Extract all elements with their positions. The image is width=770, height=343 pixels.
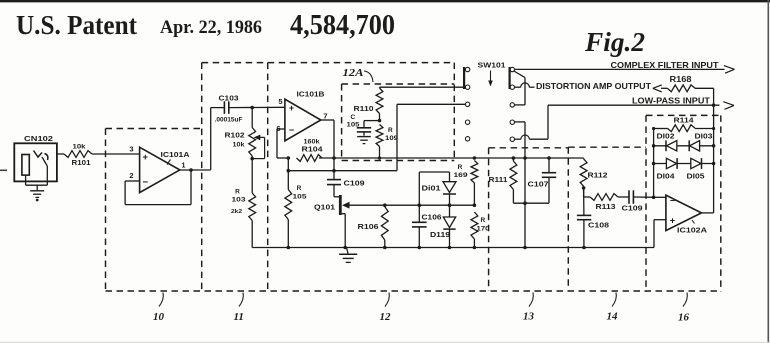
wire switch pole c1 to c3 vertical xyxy=(514,71,525,105)
wire diode network left vertical xyxy=(652,127,656,199)
wire complex filter input line with arrow xyxy=(515,60,735,73)
svg-text:R111: R111 xyxy=(489,175,508,184)
svg-text:Q101: Q101 xyxy=(314,203,335,212)
svg-text:C107: C107 xyxy=(528,180,549,189)
svg-text:IC101B: IC101B xyxy=(297,90,326,99)
dashed block 10 box xyxy=(106,129,202,292)
svg-text:DI03: DI03 xyxy=(695,134,713,141)
wire CN102 contacts to ground bar xyxy=(26,166,48,185)
wire IC101B minus input from R113/C109 node xyxy=(654,196,666,198)
wire switch c4 down to shunt network xyxy=(514,122,527,248)
svg-text:R113: R113 xyxy=(596,202,616,211)
wire IC102A output xyxy=(702,212,714,214)
svg-text:7: 7 xyxy=(323,112,327,121)
wire common bottom rail xyxy=(252,246,654,250)
svg-text:DI05: DI05 xyxy=(687,174,705,181)
wire switch line to vertical 397 xyxy=(397,103,465,105)
header: U.S. Patent xyxy=(16,10,137,40)
dashed block 11 box xyxy=(202,63,455,291)
capacitor C103 .00015uF xyxy=(211,94,243,124)
svg-text:5: 5 xyxy=(278,97,282,106)
block number label 14 with leader xyxy=(607,293,619,323)
wire node line L2 xyxy=(287,158,398,173)
capacitor C107 xyxy=(528,158,557,203)
capacitor C106 xyxy=(412,205,442,247)
svg-text:12A: 12A xyxy=(343,68,364,79)
svg-text:LOW-PASS INPUT: LOW-PASS INPUT xyxy=(632,96,711,106)
ground below CN102 xyxy=(30,185,44,201)
svg-text:R102: R102 xyxy=(225,131,245,140)
resistor R101 10k xyxy=(64,144,92,168)
switch SW101 label and arrow xyxy=(478,61,506,87)
svg-text:169: 169 xyxy=(454,172,468,179)
svg-text:COMPLEX FILTER INPUT: COMPLEX FILTER INPUT xyxy=(611,60,720,70)
svg-text:−: − xyxy=(289,125,294,135)
svg-text:C108: C108 xyxy=(588,221,609,230)
header: patent number 4,584,700 xyxy=(290,10,395,41)
wire rail corner up to IC102A plus input xyxy=(654,220,666,248)
svg-text:D119: D119 xyxy=(430,230,450,239)
diode Di01 xyxy=(419,172,456,205)
svg-text:U.S. Patent: U.S. Patent xyxy=(16,10,137,40)
wire low-pass input line with arrow xyxy=(515,96,735,140)
wire IC101A output up to C103 xyxy=(210,108,212,170)
page bottom edge xyxy=(0,341,770,343)
resistor R104 160k feedback xyxy=(277,140,323,162)
capacitor C109 (gate) xyxy=(327,171,365,197)
wire node line L1 to R112 xyxy=(287,156,584,160)
svg-text:DISTORTION AMP OUTPUT: DISTORTION AMP OUTPUT xyxy=(536,81,652,91)
capacitor C109 (block 14) xyxy=(622,190,654,212)
svg-text:C: C xyxy=(351,114,356,121)
resistor R106 xyxy=(358,207,389,248)
op-amp IC101B xyxy=(276,90,327,141)
svg-text:R104: R104 xyxy=(302,145,324,154)
svg-text:103: 103 xyxy=(232,197,246,204)
block number label 12 with leader xyxy=(380,293,392,324)
svg-text:R112: R112 xyxy=(588,171,608,180)
shared dashed bottom edge of blocks xyxy=(106,290,721,292)
svg-text:R114: R114 xyxy=(674,116,695,125)
svg-text:C109: C109 xyxy=(622,204,643,213)
page edge artifact left xyxy=(0,169,7,171)
page right border xyxy=(767,0,769,343)
svg-text:C103: C103 xyxy=(219,94,239,103)
svg-text:IC102A: IC102A xyxy=(677,226,708,235)
label 12A with leader xyxy=(343,68,374,82)
svg-text:2k2: 2k2 xyxy=(231,209,242,215)
dashed block 13 box xyxy=(489,148,569,291)
svg-text:2: 2 xyxy=(129,171,133,180)
block number label 11 with leader xyxy=(234,293,244,324)
wire vertical from switch line down to L2 xyxy=(396,104,398,170)
transistor Q101 xyxy=(314,195,385,248)
svg-text:11: 11 xyxy=(234,311,244,323)
svg-text:−: − xyxy=(670,196,675,206)
block number label 10 with leader xyxy=(153,293,165,324)
svg-text:10k: 10k xyxy=(233,143,246,149)
diode D119 xyxy=(430,205,456,247)
resistor R105 xyxy=(285,171,307,248)
svg-text:R: R xyxy=(388,127,393,134)
resistor R103 2k2 xyxy=(231,156,256,248)
svg-text:IC101A: IC101A xyxy=(161,150,191,159)
wire R168 to low-pass node and down xyxy=(695,88,715,129)
op-amp IC102A xyxy=(666,195,708,234)
svg-text:+: + xyxy=(670,216,675,226)
svg-text:R: R xyxy=(235,189,240,196)
connector jack CN102 xyxy=(14,134,57,181)
svg-text:105: 105 xyxy=(293,194,307,201)
diode row D102 D103 xyxy=(654,134,714,152)
svg-text:−: − xyxy=(143,177,149,188)
page top border xyxy=(0,0,770,2)
svg-text:R: R xyxy=(297,185,302,192)
svg-text:SW101: SW101 xyxy=(478,61,506,70)
wire R101 to IC101A pin 3 xyxy=(92,153,140,155)
svg-text:R: R xyxy=(458,164,463,171)
resistor R110 xyxy=(354,88,383,121)
svg-text:R101: R101 xyxy=(72,158,91,167)
block number label 13 with leader xyxy=(523,293,535,323)
switch SW101 right contact column xyxy=(510,67,515,141)
ground at Q101 source xyxy=(339,248,357,263)
op-amp IC101A xyxy=(129,145,190,193)
svg-text:12: 12 xyxy=(380,311,392,323)
svg-text:14: 14 xyxy=(607,311,619,323)
svg-text:16: 16 xyxy=(678,312,690,324)
arrow distortion amp output xyxy=(653,85,668,92)
svg-text:170: 170 xyxy=(477,226,490,233)
dashed block 14 box xyxy=(568,147,646,291)
capacitor C105 with ground xyxy=(347,114,382,144)
resistor R168 xyxy=(667,75,695,92)
resistor R109 xyxy=(376,125,398,159)
dashed block 12A box xyxy=(342,84,455,161)
capacitor C108 xyxy=(577,188,609,248)
svg-text:R168: R168 xyxy=(670,75,693,84)
wire CN102 to R101 xyxy=(57,153,64,155)
dashed block 12 box xyxy=(268,63,455,291)
svg-text:CN102: CN102 xyxy=(24,134,53,143)
resistor R169 xyxy=(454,161,478,208)
wire IC101A feedback loop pin2 xyxy=(125,170,191,205)
wire C103 to IC101B pin 5 xyxy=(229,106,285,110)
resistor R113 xyxy=(584,194,629,211)
svg-text:DI04: DI04 xyxy=(657,174,675,181)
resistor R170 xyxy=(471,212,490,248)
svg-text:10: 10 xyxy=(153,311,165,323)
switch SW101 left contact column xyxy=(464,67,470,141)
resistor R111 xyxy=(489,158,517,203)
svg-text:+: + xyxy=(289,103,294,113)
wire gate node line xyxy=(383,203,474,207)
wire R110 top to switch contact xyxy=(380,86,466,89)
svg-text:4,584,700: 4,584,700 xyxy=(290,10,395,41)
svg-text:R106: R106 xyxy=(358,222,379,231)
dashed block 16 box xyxy=(646,115,721,291)
svg-text:C106: C106 xyxy=(422,213,442,222)
svg-text:Di01: Di01 xyxy=(422,184,441,193)
resistor R112 xyxy=(580,158,607,197)
svg-text:105: 105 xyxy=(347,122,360,129)
block number label 16 with leader xyxy=(678,293,690,324)
svg-text:R110: R110 xyxy=(354,104,374,113)
svg-text:13: 13 xyxy=(523,311,535,323)
svg-text:C109: C109 xyxy=(344,179,365,188)
svg-text:10k: 10k xyxy=(73,144,86,151)
svg-text:1: 1 xyxy=(181,161,185,170)
svg-text:DI02: DI02 xyxy=(657,134,675,141)
resistor R114 xyxy=(654,116,714,132)
wire IC101B output pin 7 xyxy=(321,120,336,173)
svg-text:Fig.2: Fig.2 xyxy=(584,27,645,57)
wire distortion amp output stub with hop xyxy=(515,81,652,91)
wire R111 C107 bottom bar xyxy=(513,202,549,204)
wire IC101B pin 6 down xyxy=(277,129,285,158)
svg-text:+: + xyxy=(143,152,149,163)
svg-text:.00015uF: .00015uF xyxy=(215,118,243,124)
header: date Apr. 22, 1986 xyxy=(160,17,262,38)
diode row D104 D105 xyxy=(654,158,714,180)
svg-text:109: 109 xyxy=(385,135,398,142)
potentiometer R102 10k xyxy=(225,108,265,161)
svg-text:Apr. 22, 1986: Apr. 22, 1986 xyxy=(160,17,262,38)
svg-text:3: 3 xyxy=(129,145,133,154)
wire IC101A output xyxy=(180,168,211,172)
figure title Fig. 2 xyxy=(584,27,645,57)
svg-text:R: R xyxy=(481,217,486,224)
wire diode network right vertical xyxy=(712,127,716,213)
